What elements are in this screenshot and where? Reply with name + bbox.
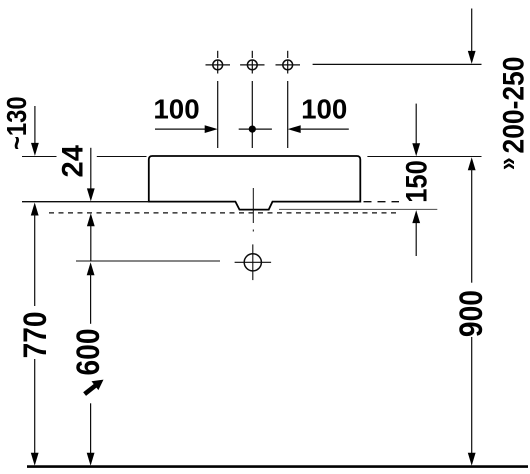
dimension 900 line — [468, 157, 476, 466]
faucet reference line y=64 — [313, 63, 482, 65]
drain outlet circle — [235, 244, 272, 280]
faucet hole circle 2 (center) — [240, 51, 264, 148]
rim extension line right — [367, 156, 481, 158]
center mark cross line — [239, 128, 272, 130]
dimension ~130 arrow — [31, 106, 39, 156]
hidden dashed line y=213 — [49, 212, 398, 214]
basin outline — [149, 156, 360, 210]
adjustable height arrow symbol — [85, 380, 104, 395]
svg-text:~130: ~130 — [0, 96, 32, 150]
outlet height reference line y=261 — [76, 260, 220, 262]
svg-text:24: 24 — [56, 145, 89, 178]
dimension 150 upper arrow — [412, 104, 420, 157]
center mark dot — [249, 126, 256, 133]
svg-text:100: 100 — [301, 93, 347, 124]
svg-text:600: 600 — [71, 329, 106, 376]
svg-text:770: 770 — [18, 311, 53, 358]
floor line — [27, 465, 528, 468]
countertop line left — [22, 201, 149, 203]
dimension 100 right arrow — [288, 125, 349, 133]
svg-text:100: 100 — [153, 93, 199, 124]
rim extension line left — [22, 156, 147, 158]
faucet hole circle 1 (left) — [206, 51, 231, 148]
faucet hole circle 3 (right) — [276, 51, 301, 148]
svg-text:»200-250: »200-250 — [494, 57, 530, 171]
hidden counter edge dashed right of basin — [364, 201, 400, 203]
dimension 24 upper arrow — [87, 148, 95, 202]
dimension 770 line — [31, 203, 39, 466]
drain centerline — [252, 188, 254, 232]
dimension 24 lower arrow — [87, 213, 95, 261]
dimension 200-250 arrow line — [468, 9, 476, 64]
lower reference line y=209 — [279, 208, 437, 210]
dimension 100 left arrow — [155, 125, 218, 133]
dimension 150 lower arrow — [412, 210, 420, 256]
svg-text:900: 900 — [454, 290, 489, 337]
svg-text:150: 150 — [399, 160, 432, 203]
dimension 600 line — [87, 262, 95, 466]
